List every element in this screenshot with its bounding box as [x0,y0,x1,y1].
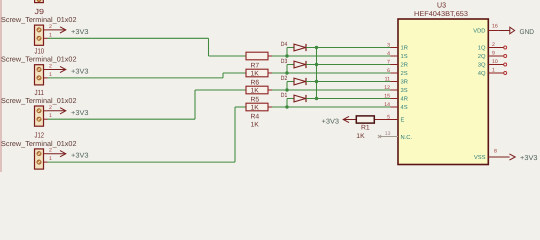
svg-text:9: 9 [492,51,495,57]
svg-text:12: 12 [384,85,390,91]
svg-text:Screw_Terminal_01x02: Screw_Terminal_01x02 [1,55,77,64]
svg-text:1S: 1S [401,53,408,60]
svg-text:2: 2 [492,42,495,48]
svg-text:2Q: 2Q [478,53,486,60]
svg-text:Screw_Terminal_01x02: Screw_Terminal_01x02 [1,15,77,24]
svg-text:+3V3: +3V3 [71,29,89,36]
svg-text:R6: R6 [251,79,260,86]
svg-text:3R: 3R [401,79,408,86]
svg-text:4R: 4R [401,97,408,103]
svg-text:+3V3: +3V3 [71,153,89,160]
svg-text:1: 1 [49,72,52,78]
svg-text:R1: R1 [361,124,370,131]
svg-text:2: 2 [49,105,52,111]
svg-text:+3V3: +3V3 [71,110,89,117]
svg-text:14: 14 [384,102,390,108]
svg-text:2S: 2S [401,70,408,77]
svg-text:1R: 1R [401,46,408,52]
svg-text:VDD: VDD [473,29,485,35]
svg-text:1: 1 [49,156,52,162]
svg-text:R5: R5 [251,96,260,103]
svg-text:D4: D4 [281,41,288,48]
svg-text:1: 1 [492,68,495,74]
svg-text:+3V3: +3V3 [322,118,340,125]
svg-text:4: 4 [387,51,390,57]
svg-text:E: E [401,118,405,124]
svg-text:U3: U3 [437,1,446,10]
svg-text:GND: GND [520,29,535,36]
svg-text:Screw_Terminal_01x02: Screw_Terminal_01x02 [1,96,77,105]
svg-text:Screw_Terminal_01x02: Screw_Terminal_01x02 [1,139,77,148]
svg-text:3Q: 3Q [478,62,486,69]
svg-text:3: 3 [387,42,390,48]
svg-text:D1: D1 [281,92,288,99]
svg-text:2: 2 [49,24,52,30]
svg-text:1K: 1K [251,71,260,78]
svg-text:+3V3: +3V3 [520,155,538,162]
svg-text:15: 15 [384,93,390,99]
svg-text:2: 2 [49,64,52,70]
svg-text:D2: D2 [281,75,288,82]
svg-text:10: 10 [492,59,498,65]
svg-text:5: 5 [387,114,390,120]
svg-text:16: 16 [492,23,498,29]
svg-text:7: 7 [387,59,390,65]
svg-text:N.C.: N.C. [401,134,413,141]
svg-text:R4: R4 [251,113,260,120]
svg-text:11: 11 [385,76,390,82]
svg-text:4S: 4S [401,104,408,111]
svg-text:1: 1 [49,32,52,38]
svg-text:+3V3: +3V3 [71,69,89,76]
svg-text:D3: D3 [281,58,288,65]
svg-text:1K: 1K [356,133,365,140]
svg-text:R7: R7 [251,62,260,69]
svg-text:2: 2 [49,148,52,154]
svg-text:4Q: 4Q [478,70,486,77]
svg-text:8: 8 [494,149,497,155]
svg-text:1K: 1K [251,105,260,112]
svg-text:1K: 1K [251,88,260,95]
svg-text:HEF4043BT,653: HEF4043BT,653 [414,11,468,18]
svg-text:1Q: 1Q [478,45,486,52]
svg-text:VSS: VSS [474,154,486,161]
svg-text:1: 1 [49,113,52,119]
svg-text:6: 6 [387,68,390,74]
svg-text:1K: 1K [251,122,260,129]
svg-text:2R: 2R [401,62,408,69]
svg-text:13: 13 [385,131,391,137]
svg-text:3S: 3S [401,87,408,94]
